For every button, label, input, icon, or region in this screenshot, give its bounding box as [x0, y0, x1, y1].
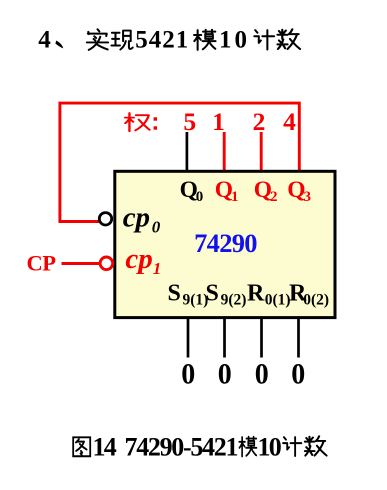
- svg-text:R: R: [247, 281, 265, 307]
- wire: R0(1) ground pin: [260, 318, 263, 358]
- svg-text:10: 10: [219, 27, 250, 54]
- pin label cp1 (clock input B) red: [125, 243, 161, 278]
- svg-text:1: 1: [212, 107, 225, 136]
- caption: 图14 74290-5421模10计数: [73, 433, 326, 462]
- svg-text:cp: cp: [125, 243, 152, 275]
- svg-text:0: 0: [196, 189, 204, 205]
- svg-text:1: 1: [153, 259, 162, 278]
- wire: R0(2) ground pin: [297, 318, 300, 358]
- svg-text:2: 2: [253, 107, 266, 136]
- svg-text:3: 3: [304, 189, 312, 205]
- svg-text:0: 0: [152, 218, 161, 237]
- title char 模: [194, 30, 216, 50]
- svg-text:9(2): 9(2): [221, 292, 247, 309]
- svg-text:cp: cp: [123, 202, 150, 234]
- IC U1 74290 body: [115, 171, 335, 317]
- svg-text:4: 4: [283, 107, 296, 136]
- svg-text:0(1): 0(1): [265, 292, 291, 309]
- caption char 模: [239, 437, 256, 457]
- svg-text:0: 0: [291, 358, 305, 391]
- pin label Q2: [254, 177, 278, 205]
- svg-text:1: 1: [231, 189, 239, 205]
- bubble at cp1 input (red): [100, 257, 113, 270]
- pin label Q3: [287, 177, 311, 205]
- svg-text:0(2): 0(2): [303, 292, 329, 309]
- title char 数: [277, 29, 300, 49]
- title ideographic comma 、: [55, 40, 63, 48]
- wire: red feedback loop from Q3 top to cp0 input: [60, 103, 299, 221]
- svg-text:10: 10: [258, 433, 282, 462]
- svg-text:74290-5421: 74290-5421: [125, 433, 238, 462]
- title char 实: [87, 29, 108, 50]
- svg-text:74290: 74290: [194, 228, 257, 258]
- wire: Q2 output pin (red): [260, 132, 263, 171]
- label 权： (weights) red: [125, 113, 149, 131]
- colon of 权：: [154, 117, 157, 129]
- wire: Q1 output pin (red): [223, 132, 226, 171]
- svg-text:S: S: [206, 281, 219, 307]
- wire: S9(2) ground pin: [223, 318, 226, 358]
- svg-text:2: 2: [270, 189, 278, 205]
- pin label Q1: [215, 177, 239, 205]
- wire: CP to cp1 bubble (red): [62, 262, 101, 265]
- wire: Q0 output pin (black): [186, 132, 189, 170]
- svg-text:9(1): 9(1): [183, 292, 209, 309]
- svg-text:S: S: [168, 281, 181, 307]
- caption char 数: [305, 436, 327, 455]
- title char 计: [254, 30, 274, 49]
- wire: S9(1) ground pin: [187, 318, 190, 358]
- svg-text:5421: 5421: [135, 27, 189, 54]
- svg-text:CP: CP: [27, 250, 57, 275]
- caption char 图: [73, 437, 90, 456]
- svg-text:0: 0: [255, 358, 269, 391]
- svg-text:14: 14: [93, 433, 117, 462]
- pin label cp0 (clock input A): [123, 202, 161, 237]
- svg-text:4: 4: [38, 27, 51, 54]
- bubble at cp0 input: [99, 213, 111, 225]
- svg-text:5: 5: [183, 107, 196, 136]
- svg-text:0: 0: [181, 358, 195, 391]
- title: 4、实现5421模10计数: [38, 27, 300, 54]
- title char 现: [111, 31, 132, 50]
- svg-text:0: 0: [218, 358, 232, 391]
- caption char 计: [283, 437, 301, 456]
